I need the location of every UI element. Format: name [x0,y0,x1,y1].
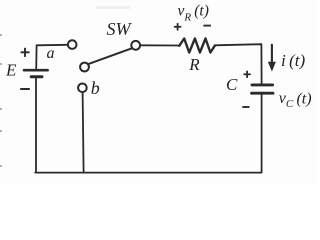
current arrow i(t) head [268,62,276,72]
wire battery top to node a [36,45,67,70]
capacitor C top plate [252,83,273,86]
svg-text:E: E [5,61,17,80]
wire resistor to top-right corner and down to capacitor [215,44,262,83]
switch pole arm blade [89,48,132,64]
faint scan smudge top [96,6,130,9]
svg-text:C: C [226,75,238,94]
svg-text:vC (t): vC (t) [279,90,312,110]
label + of capacitor [244,71,251,78]
current arrow i(t) shaft [271,45,273,63]
switch pole circle [131,41,140,50]
wire capacitor bottom to bottom-right corner [261,95,263,173]
label - of resistor [203,25,211,27]
battery E long plate [24,69,48,72]
svg-text:R: R [188,55,200,74]
label + of battery [21,48,30,57]
label + of resistor [174,23,181,30]
svg-text:a: a [47,45,55,62]
resistor R zigzag [179,39,215,53]
switch arm end circle [80,63,89,72]
label - of capacitor [242,106,249,108]
svg-text:b: b [91,78,100,98]
svg-text:SW: SW [107,19,133,39]
battery E short plate [31,75,42,78]
wire bottom [35,172,261,174]
label - of battery [20,88,30,90]
svg-text:vR (t): vR (t) [178,3,209,24]
wire battery bottom to lower-left corner [35,78,37,171]
switch contact b terminal circle [78,84,87,93]
wire switch pole to resistor [140,44,179,46]
svg-text:i (t): i (t) [281,51,306,70]
capacitor C bottom plate [252,92,273,95]
wire node b down to bottom wire [83,92,84,172]
scan artifact dots on left edge [0,34,2,167]
switch contact a terminal circle [68,40,77,49]
